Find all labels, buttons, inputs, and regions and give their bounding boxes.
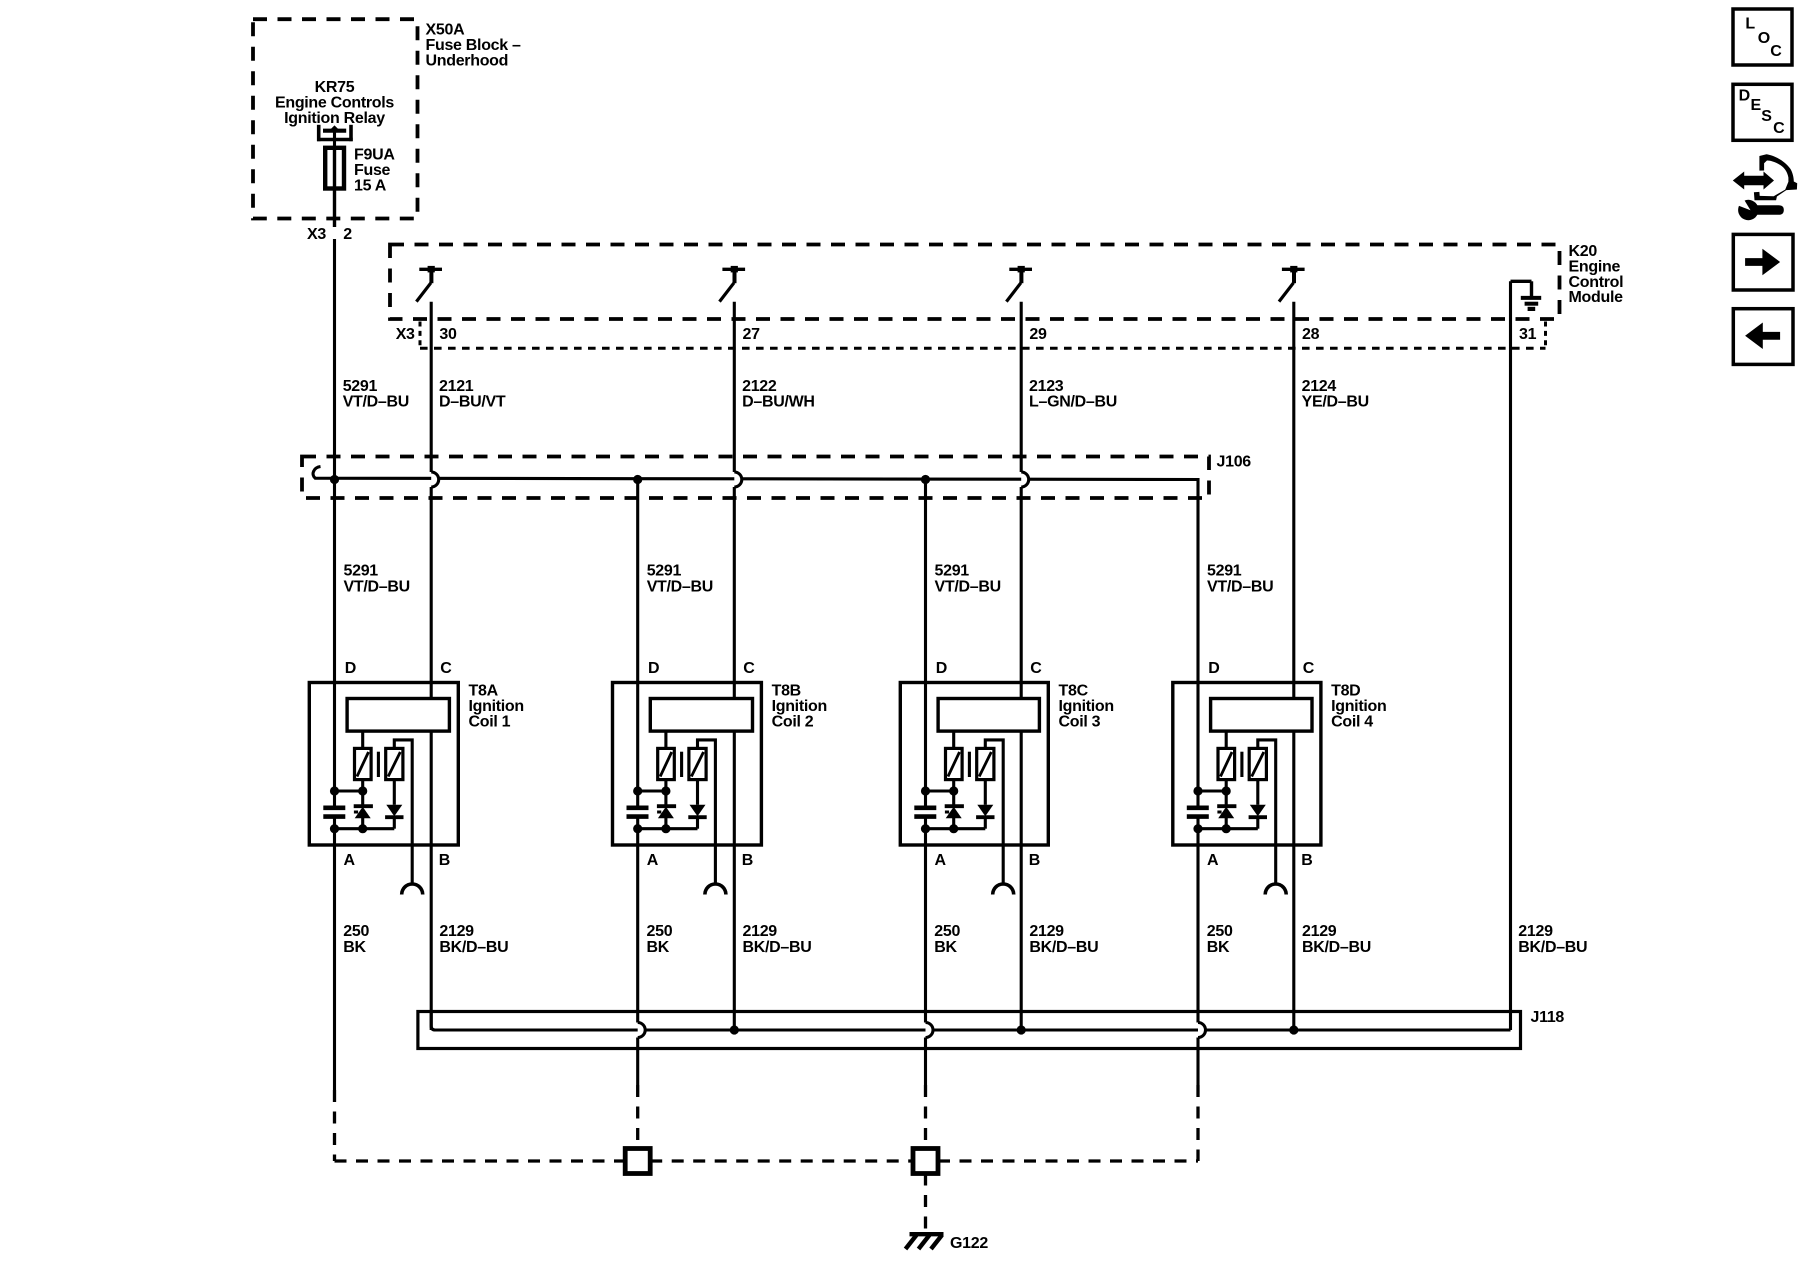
ignition coil 2 bottom rail [633,817,697,845]
svg-text:Module: Module [1569,289,1624,306]
svg-text:L–GN/D–BU: L–GN/D–BU [1029,393,1117,410]
ignition coil 2 capacitor [627,808,649,817]
splice J118 box [418,1012,1521,1049]
svg-text:250: 250 [934,923,960,940]
ignition coil 4 spark plug arc [1265,884,1286,895]
svg-text:J118: J118 [1531,1009,1565,1026]
svg-text:A: A [935,852,947,869]
svg-text:2129: 2129 [1518,923,1553,940]
ignition coil 3 core [968,752,971,777]
svg-text:D–BU/WH: D–BU/WH [742,393,815,410]
ignition coil 2 primary winding [658,731,675,780]
wire 250 BK from coil 2 pin A [636,845,639,1023]
svg-text:30: 30 [439,326,457,343]
ignition coil 2 internal wire pin C [733,683,736,846]
svg-text:B: B [1301,852,1312,869]
ignition coil 2 spark plug arc [705,884,726,895]
ECM driver switch for pin 30 [416,266,442,302]
svg-text:VT/D–BU: VT/D–BU [343,393,409,410]
ignition coil 1 core [377,752,380,777]
svg-text:C: C [1303,660,1315,677]
wire hop pin30 over J106 [431,472,438,487]
svg-text:B: B [742,852,753,869]
wire hop coil3 ground over J118 [926,1023,934,1038]
ignition coil 1 secondary diode [385,780,403,829]
svg-text:YE/D–BU: YE/D–BU [1302,393,1369,410]
wire 2129 from coil 1 pin B to J118 [430,845,433,1030]
svg-text:B: B [439,852,450,869]
svg-text:27: 27 [743,326,761,343]
svg-text:2129: 2129 [1029,923,1064,940]
ECM connector pin labels [396,326,1537,343]
ignition coil 2 core [680,752,683,777]
ECM X3 connector dotted line [420,347,1546,350]
ignition coil 4 bottom rail [1193,817,1257,845]
wire 2122 from ECM pin 27 to ignition coil 2 pin C [733,302,736,472]
ignition coil 4 T8D box [1173,683,1321,846]
ignition coil 3 zener diode [945,806,964,829]
svg-text:X3: X3 [307,226,326,243]
wire 2129 from coil 2 pin B to J118 [733,845,736,1030]
ignition coil 4 T8D label [1331,683,1386,731]
connector separator right pin 31 [1544,322,1547,349]
wire labels 2129 BK/D-BU coil 1 [439,923,508,956]
svg-text:Ignition Relay: Ignition Relay [284,110,385,127]
fuse F9UA label [354,147,395,195]
wire 5291 branch to coil 3 pin D [924,480,927,683]
ignition coil 1 zener diode [354,806,373,829]
ignition coil 1 primary return to zener [361,780,364,807]
svg-text:VT/D–BU: VT/D–BU [344,579,410,596]
svg-text:BK/D–BU: BK/D–BU [1518,939,1587,956]
ignition coil 1 primary connector bar [347,699,449,732]
svg-text:C: C [440,660,452,677]
svg-text:C: C [1030,660,1042,677]
unspecified ground path from coil 2 [636,1085,639,1149]
junction J118 coil 4 pin B [1289,1025,1298,1034]
wire labels 250 BK coil 2 [647,923,673,956]
ground connector square right [913,1149,938,1174]
ignition coil 4 secondary winding [1249,748,1266,779]
svg-text:A: A [1207,852,1219,869]
unspecified ground bus to G122 [335,1159,626,1162]
wire labels 2129 BK/D-BU coil 3 [1029,923,1098,956]
ignition coil 4 junction D to primary [1193,786,1230,795]
junction J106 to coil 3 branch [921,475,930,484]
svg-text:Underhood: Underhood [426,52,509,69]
ignition coil 1 T8A label [469,683,524,731]
svg-text:C: C [1770,43,1782,60]
ignition coil 3 junction D to primary [921,786,958,795]
svg-text:5291: 5291 [647,563,682,580]
ignition coil 3 internal wire pin D [924,683,927,806]
wire 2129 from coil 3 pin B to J118 [1020,845,1023,1030]
svg-text:5291: 5291 [1207,563,1242,580]
ground G122 symbol [906,1234,944,1249]
splice J106 bus wire [313,467,1198,683]
wire hop coil4 ground over J118 [1198,1023,1206,1038]
svg-text:Coil 4: Coil 4 [1331,713,1373,730]
ignition coil 1 junction D to primary [330,786,367,795]
svg-text:Coil 3: Coil 3 [1059,713,1101,730]
svg-text:G122: G122 [950,1235,988,1252]
ignition coil 4 core [1240,752,1243,777]
ignition coil 3 primary connector bar [938,699,1039,732]
fuse block X50A dashed box [253,19,418,218]
svg-text:5291: 5291 [935,563,970,580]
unspecified wire square to G122 [924,1174,927,1232]
wire 2129 from coil 4 pin B to J118 [1292,845,1295,1030]
sidebar icon arrow right [1733,234,1793,290]
ignition coil 2 junction D to primary [633,786,670,795]
splice J118 bus wire [431,1012,1510,1031]
ECM driver switch for pin 28 [1279,266,1305,302]
ignition coil 2 secondary winding [689,748,706,779]
ignition coil 2 primary connector bar [650,699,752,732]
svg-text:C: C [1773,120,1785,137]
wire 250 BK from coil 3 pin A [924,845,927,1023]
svg-text:A: A [647,852,659,869]
wire 5291 from fuse to J106 splice [333,239,336,480]
svg-text:D: D [345,660,356,677]
sidebar icon LOC [1733,9,1792,65]
ignition coil 3 capacitor [914,808,936,817]
ignition coil 4 zener diode [1217,806,1236,829]
junction J118 coil 2 pin B [730,1025,739,1034]
svg-text:J106: J106 [1217,454,1252,471]
ignition coil 4 primary connector bar [1211,699,1312,732]
unspecified ground path from coil 1 [333,1090,336,1161]
svg-text:5291: 5291 [344,563,379,580]
splice J106 dashed box [302,457,1209,499]
ignition coil 2 internal wire pin D [636,683,639,806]
svg-text:A: A [344,852,356,869]
svg-text:O: O [1758,30,1770,47]
svg-text:BK/D–BU: BK/D–BU [1302,939,1371,956]
svg-text:VT/D–BU: VT/D–BU [935,579,1001,596]
ECM internal ground at pin 31 [1511,281,1542,309]
ECM K20 dashed box [390,245,1560,320]
wire 250 BK from coil 4 pin A [1196,845,1199,1023]
ignition coil 1 secondary output wire to spark gap [394,740,412,883]
ECM driver switch for pin 27 [720,266,746,302]
svg-text:VT/D–BU: VT/D–BU [647,579,713,596]
ignition coil 1 internal wire pin C [430,683,433,846]
connector X3 pin 2 labels [307,226,352,243]
ignition coil 2 secondary output wire to spark gap [698,740,716,883]
ignition coil 2 T8B box [613,683,762,846]
svg-text:BK: BK [343,939,366,956]
svg-text:2129: 2129 [1302,923,1337,940]
svg-text:BK: BK [647,939,670,956]
connector separator left [419,322,422,349]
svg-text:15 A: 15 A [354,178,387,195]
svg-text:L: L [1745,15,1755,32]
ignition coil 3 secondary winding [977,748,994,779]
svg-text:B: B [1029,852,1040,869]
svg-text:VT/D–BU: VT/D–BU [1207,579,1273,596]
ignition coil 4 secondary output wire to spark gap [1258,740,1276,883]
sidebar icon wrench with arrows [1733,154,1797,220]
ignition coil 3 internal wire pin C [1020,683,1023,846]
svg-text:BK/D–BU: BK/D–BU [439,939,508,956]
wire labels 250 BK coil 4 [1207,923,1233,956]
ignition coil 2 secondary diode [688,780,706,829]
ignition coil 3 primary return to zener [952,780,955,807]
svg-text:D: D [1739,87,1750,104]
ignition coil 3 secondary diode [976,780,994,829]
ignition coil 4 internal wire pin D [1196,683,1199,806]
svg-text:D: D [936,660,947,677]
ignition coil 1 spark plug arc [402,884,423,895]
wire 2129 from ECM pin 31 to J118 splice [1509,281,1512,1030]
wire 250 BK from coil 1 pin A [333,845,336,1090]
ignition coil 3 T8C label [1059,683,1114,731]
junction J106 to coil 2 branch [633,475,642,484]
sidebar icon DESC [1733,84,1792,140]
svg-text:C: C [743,660,755,677]
svg-text:BK: BK [934,939,957,956]
svg-text:28: 28 [1302,326,1320,343]
svg-text:2: 2 [343,226,352,243]
wire 5291 branch to coil 1 pin D [333,480,336,683]
svg-text:250: 250 [343,923,369,940]
wire labels 250 BK coil 3 [934,923,960,956]
svg-text:31: 31 [1519,326,1537,343]
sidebar icon arrow left [1733,309,1793,365]
unspecified ground path from coil 3 [924,1085,927,1149]
junction J106 to wire 5291 coil 1 [330,475,339,484]
wire labels 2129 BK/D-BU coil 2 [743,923,812,956]
ignition coil 3 spark plug arc [993,884,1014,895]
ignition coil 2 zener diode [657,806,676,829]
ignition coil 4 capacitor [1187,808,1209,817]
svg-text:X3: X3 [396,326,415,343]
svg-text:250: 250 [647,923,673,940]
svg-text:250: 250 [1207,923,1233,940]
wire labels circuit 5291 and 2121-2124 row [343,378,1369,410]
ignition coil 1 internal wire pin D [333,683,336,806]
relay KR75 contact symbol [317,125,353,147]
wire labels 2129 BK/D-BU at ECM pin 31 [1518,923,1587,956]
ignition coil 1 primary winding [355,731,372,780]
svg-text:BK: BK [1207,939,1230,956]
wire labels 250 BK coil 1 [343,923,369,956]
wire 2121 from ECM pin 30 to ignition coil 1 pin C [430,302,433,472]
fuse F9UA symbol [325,146,344,227]
ignition coil 4 primary winding [1218,731,1235,780]
ignition coil 4 internal wire pin C [1292,683,1295,846]
svg-text:D–BU/VT: D–BU/VT [439,393,506,410]
wire 5291 branch to coil 2 pin D [636,480,639,683]
svg-text:Coil 1: Coil 1 [469,713,511,730]
wire hop pin27 over J106 [734,472,741,487]
svg-text:E: E [1751,97,1762,114]
svg-text:29: 29 [1029,326,1047,343]
ignition coil 4 primary return to zener [1225,780,1228,807]
ignition coil 3 T8C box [900,683,1048,846]
unspecified ground path from coil 4 [1196,1085,1199,1161]
wire labels 5291 VT/D-BU row above coils [344,563,1274,596]
svg-text:BK/D–BU: BK/D–BU [743,939,812,956]
ignition coil 4 secondary diode [1249,780,1267,829]
ignition coil 3 secondary output wire to spark gap [985,740,1003,883]
ignition coil 2 T8B label [772,683,827,731]
ECM K20 label [1569,243,1624,306]
ignition coil 3 primary winding [946,731,963,780]
wire labels 2129 BK/D-BU coil 4 [1302,923,1371,956]
svg-text:Coil 2: Coil 2 [772,713,814,730]
wire 2123 from ECM pin 29 to ignition coil 3 pin C [1020,302,1023,472]
junction J118 coil 3 pin B [1017,1025,1026,1034]
ignition coil 1 T8A box [309,683,458,846]
ignition coil 1 capacitor [323,808,345,817]
svg-text:2129: 2129 [743,923,778,940]
wire hop coil2 ground over J118 [638,1023,646,1038]
ignition coil 3 bottom rail [921,817,985,845]
svg-text:S: S [1761,108,1772,125]
svg-text:D: D [1208,660,1219,677]
fuse block X50A label [426,22,522,70]
ground connector square left [625,1149,650,1174]
svg-text:BK/D–BU: BK/D–BU [1029,939,1098,956]
svg-text:D: D [648,660,659,677]
relay KR75 label [275,79,394,127]
svg-text:2129: 2129 [439,923,474,940]
ignition coil 1 secondary winding [386,748,403,779]
ECM driver switch for pin 29 [1006,266,1032,302]
wire 2124 from ECM pin 28 to ignition coil 4 pin C [1292,302,1295,683]
wire hop pin29 over J106 [1021,472,1028,487]
ignition coil 2 primary return to zener [664,780,667,807]
ignition coil 1 bottom rail [330,817,394,845]
